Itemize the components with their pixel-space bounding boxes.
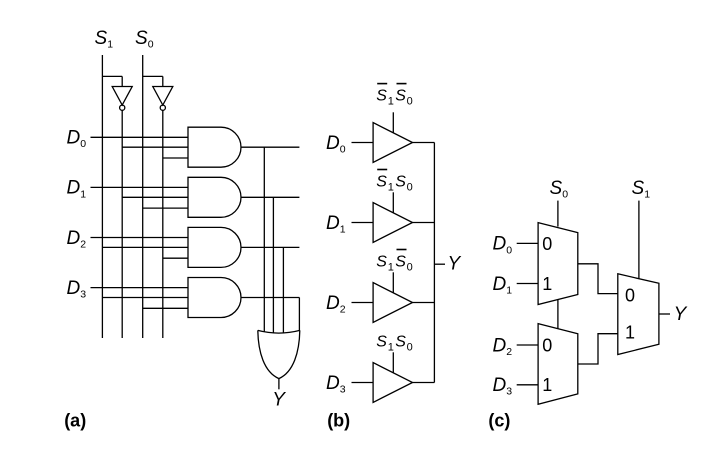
svg-text:D3: D3: [493, 375, 513, 398]
svg-text:1: 1: [542, 375, 552, 395]
svg-text:D2: D2: [67, 228, 87, 251]
svg-text:(b): (b): [327, 411, 350, 431]
svg-text:D1: D1: [67, 178, 87, 201]
svg-text:S1S0: S1S0: [376, 88, 413, 108]
svg-text:0: 0: [625, 286, 635, 306]
svg-text:S1S0: S1S0: [376, 334, 413, 354]
svg-text:S1: S1: [632, 178, 651, 201]
svg-text:S0: S0: [550, 178, 569, 201]
svg-text:D1: D1: [326, 213, 346, 236]
svg-text:0: 0: [542, 234, 552, 254]
svg-text:D3: D3: [326, 373, 346, 396]
svg-text:S1S0: S1S0: [376, 174, 413, 194]
svg-text:D0: D0: [67, 128, 87, 151]
svg-text:D0: D0: [326, 133, 346, 156]
svg-text:1: 1: [625, 322, 635, 342]
svg-text:D2: D2: [493, 335, 513, 358]
svg-text:S1: S1: [95, 28, 114, 51]
svg-text:D3: D3: [67, 278, 87, 301]
svg-text:D2: D2: [326, 293, 346, 316]
svg-text:Y: Y: [674, 304, 688, 325]
svg-text:0: 0: [542, 335, 552, 355]
svg-text:(c): (c): [488, 411, 510, 431]
svg-text:(a): (a): [64, 411, 86, 431]
svg-text:S0: S0: [135, 28, 154, 51]
svg-text:Y: Y: [448, 253, 462, 274]
svg-text:S1S0: S1S0: [376, 254, 413, 274]
svg-text:Y: Y: [272, 389, 286, 410]
svg-text:1: 1: [542, 274, 552, 294]
svg-text:D1: D1: [493, 274, 513, 297]
svg-text:D0: D0: [493, 234, 513, 257]
